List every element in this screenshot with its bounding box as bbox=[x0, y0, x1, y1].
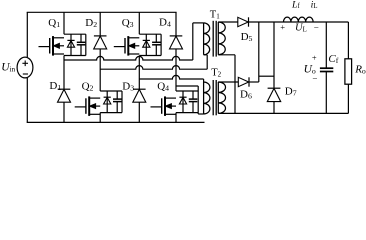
Q1 antiparallel diode and snubber capacitor bbox=[64, 33, 86, 35]
svg-text:+: + bbox=[280, 22, 285, 32]
transformer T2 core bbox=[212, 80, 214, 115]
wire: branch 1 from Q1 group to node M1 bbox=[63, 56, 65, 61]
voltage source Uin bbox=[17, 57, 33, 78]
Q3 antiparallel diode and snubber capacitor bbox=[139, 33, 161, 35]
wire: branch 1 vertical (Q1 drain from top rail) bbox=[63, 12, 65, 34]
wire: Cf top stem bbox=[325, 22, 327, 68]
wire: left rail from Uin down to bottom rail bbox=[26, 78, 28, 123]
wire: secondary junction bus vertical down to secondary rail bbox=[234, 55, 236, 114]
diode D3 bbox=[133, 88, 146, 90]
wire: Cf bottom stem to secondary rail bbox=[325, 72, 327, 114]
wire: branch 4 from Q4 group to bottom rail bbox=[175, 113, 177, 123]
transformer T1 core bbox=[212, 21, 214, 57]
wire: R0 top lead bbox=[347, 22, 349, 59]
diode D5 bbox=[238, 17, 248, 26]
wire: branch 4 vertical D4 to Q4 group bbox=[175, 49, 177, 91]
wire: branch 4 vertical from top rail to D4 bbox=[175, 12, 177, 36]
wire: branch 3 from Q3 group to D3 bbox=[138, 56, 140, 90]
wire: top rail bbox=[27, 11, 177, 13]
svg-text:+: + bbox=[312, 53, 317, 63]
wire: branch 3 vertical (Q3 drain from top rail) bbox=[138, 12, 140, 34]
wire: left rail from Uin up to top rail bbox=[26, 12, 28, 57]
svg-text:−: − bbox=[314, 23, 319, 33]
wire: T1 secondary top to D5 anode bbox=[218, 21, 238, 23]
wire: branch 2 vertical D2 to Q2 group bbox=[99, 49, 101, 91]
wire: D6 cathode riser to output wire bbox=[249, 81, 259, 83]
resistor R0 bbox=[345, 59, 352, 84]
wire: D7 anode to secondary rail bbox=[273, 102, 275, 114]
wire M2: leg2 midpoint to T1 primary bottom (hops over B3,B4) bbox=[100, 66, 207, 70]
transformer T2 secondary winding bbox=[218, 82, 225, 113]
diode D1 bbox=[58, 88, 71, 90]
wire: T1 secondary bottom to junction bus bbox=[218, 54, 235, 56]
wire: branch 1 D1 vertical to bottom rail bbox=[63, 60, 65, 89]
diode D7 bbox=[268, 87, 281, 89]
Q2 antiparallel diode and snubber capacitor bbox=[100, 90, 122, 92]
wire: R0 bottom lead to secondary rail bbox=[347, 84, 349, 113]
Q4 antiparallel diode and snubber capacitor bbox=[176, 90, 198, 92]
transformer T2 primary winding bbox=[204, 82, 210, 114]
wire: output wire from D5 to load bbox=[249, 21, 349, 23]
wire: bottom rail (primary side) bbox=[27, 121, 205, 123]
wire: T2 secondary top to D6 anode bbox=[218, 81, 238, 83]
wire: branch 3 D3 vertical to bottom rail bbox=[138, 102, 140, 122]
wire: branch 2 from Q2 group to bottom rail bbox=[99, 113, 101, 123]
diode D4 bbox=[170, 35, 183, 37]
wire M3: leg3 midpoint to T2 primary top (hops over B4) bbox=[139, 75, 203, 79]
transformer T1 secondary winding bbox=[218, 22, 225, 55]
transistor Q2 MOSFET symbol bbox=[88, 96, 90, 116]
transistor Q3 MOSFET symbol bbox=[127, 36, 129, 56]
transistor Q4 MOSFET symbol bbox=[164, 96, 166, 116]
wire M1: leg1 midpoint to T1 primary top (hops over B2,B3,B4) bbox=[64, 56, 193, 60]
wire: secondary-side bottom rail bbox=[218, 112, 348, 114]
inductor Lf bbox=[284, 17, 314, 22]
diode D6 bbox=[238, 77, 248, 86]
transistor Q1 MOSFET symbol bbox=[52, 36, 54, 56]
capacitor Cf bbox=[320, 67, 333, 69]
diode D2 bbox=[94, 35, 107, 37]
wire: branch 2 vertical from top rail to D2 bbox=[99, 12, 101, 36]
transformer T1 primary winding bbox=[204, 23, 210, 55]
diode D7 top lead bbox=[273, 22, 275, 88]
svg-text:−: − bbox=[312, 73, 317, 83]
wire M4: leg4 midpoint to T2 primary bottom bbox=[176, 85, 198, 87]
wire: link from D6 riser to D7 lead bbox=[259, 75, 274, 77]
